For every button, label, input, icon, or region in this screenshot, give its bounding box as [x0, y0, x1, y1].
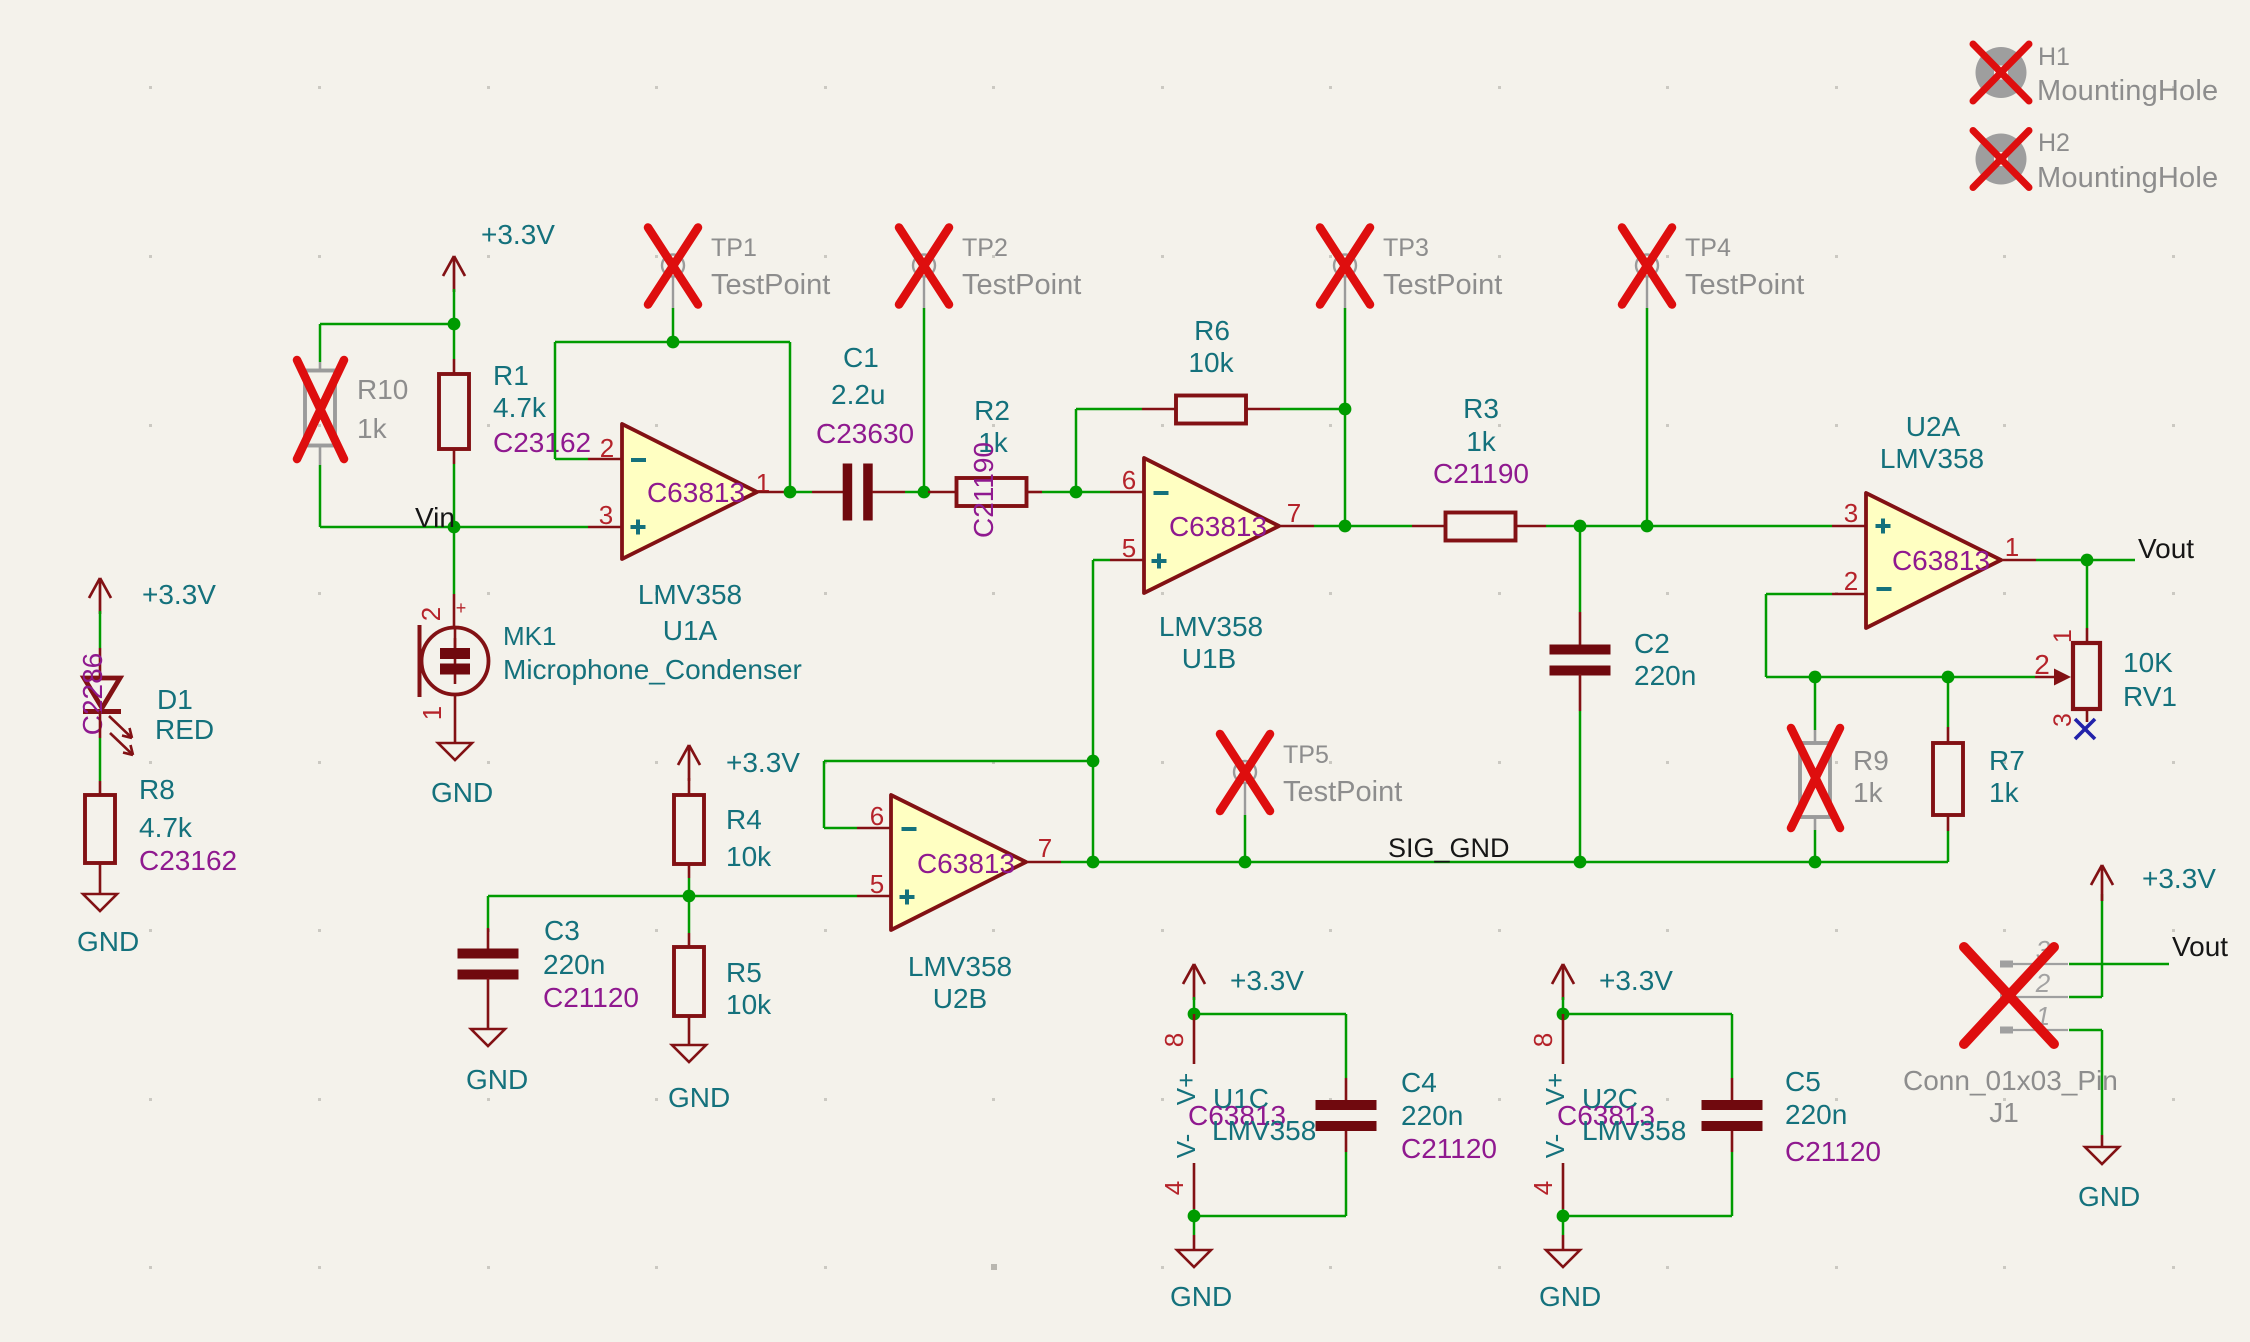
svg-text:C21120: C21120 [1401, 1133, 1497, 1164]
svg-text:4: 4 [1159, 1181, 1189, 1195]
svg-text:MK1: MK1 [503, 621, 556, 651]
svg-text:U1B: U1B [1182, 643, 1236, 674]
svg-text:Microphone_Condenser: Microphone_Condenser [503, 654, 802, 685]
svg-text:GND: GND [668, 1082, 730, 1113]
svg-text:2: 2 [2034, 649, 2050, 680]
svg-text:1: 1 [2005, 532, 2019, 562]
svg-text:R7: R7 [1989, 745, 2025, 776]
svg-text:TestPoint: TestPoint [1383, 269, 1502, 301]
svg-text:+: + [456, 598, 467, 618]
svg-text:R3: R3 [1463, 393, 1499, 424]
svg-text:MountingHole: MountingHole [2037, 75, 2218, 107]
svg-text:4.7k: 4.7k [139, 812, 193, 843]
svg-text:1: 1 [2049, 629, 2077, 643]
svg-text:H1: H1 [2038, 43, 2070, 71]
svg-text:RV1: RV1 [2123, 681, 2177, 712]
svg-text:220n: 220n [1634, 660, 1696, 691]
svg-text:TP1: TP1 [711, 234, 757, 262]
svg-text:R8: R8 [139, 774, 175, 805]
svg-text:TP5: TP5 [1283, 741, 1329, 769]
svg-text:TestPoint: TestPoint [962, 269, 1081, 301]
svg-text:1k: 1k [1989, 777, 2020, 808]
svg-text:GND: GND [1170, 1281, 1232, 1312]
svg-text:7: 7 [1287, 498, 1301, 528]
svg-text:+3.3V: +3.3V [726, 747, 800, 778]
svg-text:MountingHole: MountingHole [2037, 162, 2218, 194]
svg-text:U2A: U2A [1906, 411, 1961, 442]
svg-text:1k: 1k [1853, 777, 1884, 808]
svg-text:TP4: TP4 [1685, 234, 1731, 262]
svg-text:6: 6 [1122, 465, 1136, 495]
svg-text:D1: D1 [157, 684, 193, 715]
svg-text:GND: GND [2078, 1181, 2140, 1212]
svg-text:10k: 10k [726, 989, 772, 1020]
svg-text:4.7k: 4.7k [493, 392, 547, 423]
svg-text:H2: H2 [2038, 129, 2070, 157]
svg-text:3: 3 [599, 500, 613, 530]
svg-text:GND: GND [77, 926, 139, 957]
svg-text:SIG_GND: SIG_GND [1388, 833, 1510, 863]
svg-text:U2B: U2B [933, 983, 987, 1014]
svg-text:GND: GND [1539, 1281, 1601, 1312]
svg-text:Vout: Vout [2138, 533, 2194, 564]
svg-text:2: 2 [1844, 566, 1858, 596]
svg-text:2: 2 [2035, 968, 2051, 998]
svg-text:220n: 220n [1401, 1100, 1463, 1131]
svg-text:R2: R2 [974, 395, 1010, 426]
svg-text:V-: V- [1171, 1134, 1201, 1159]
svg-text:10k: 10k [1188, 347, 1234, 378]
svg-text:C21190: C21190 [968, 442, 999, 538]
svg-text:C2: C2 [1634, 628, 1670, 659]
svg-text:Vin: Vin [415, 502, 455, 533]
svg-text:R5: R5 [726, 957, 762, 988]
svg-text:220n: 220n [1785, 1099, 1847, 1130]
svg-text:C21120: C21120 [1785, 1136, 1881, 1167]
svg-text:C1: C1 [843, 342, 879, 373]
svg-text:LMV358: LMV358 [1212, 1115, 1316, 1146]
svg-text:+3.3V: +3.3V [1599, 965, 1673, 996]
svg-text:8: 8 [1528, 1033, 1558, 1047]
svg-text:1k: 1k [1466, 426, 1497, 457]
svg-text:C23162: C23162 [139, 845, 237, 876]
svg-text:2: 2 [416, 607, 446, 621]
svg-text:J1: J1 [1989, 1097, 2019, 1128]
svg-text:2.2u: 2.2u [831, 379, 886, 410]
svg-text:5: 5 [870, 869, 884, 899]
svg-text:C21190: C21190 [1433, 458, 1529, 489]
svg-text:LMV358: LMV358 [1159, 611, 1263, 642]
svg-text:C5: C5 [1785, 1066, 1821, 1097]
svg-text:GND: GND [431, 777, 493, 808]
svg-text:5: 5 [1122, 533, 1136, 563]
svg-text:R6: R6 [1194, 315, 1230, 346]
svg-text:C2286: C2286 [77, 653, 108, 736]
svg-text:Vout: Vout [2172, 931, 2228, 962]
svg-text:C63813: C63813 [1169, 511, 1267, 542]
svg-text:C3: C3 [544, 915, 580, 946]
svg-text:C23162: C23162 [493, 427, 591, 458]
svg-text:10k: 10k [726, 841, 772, 872]
svg-text:1: 1 [756, 468, 770, 498]
svg-text:+3.3V: +3.3V [481, 219, 555, 250]
svg-text:3: 3 [1844, 498, 1858, 528]
svg-text:8: 8 [1159, 1033, 1189, 1047]
svg-text:LMV358: LMV358 [638, 579, 742, 610]
svg-text:C23630: C23630 [816, 418, 914, 449]
svg-text:C63813: C63813 [917, 848, 1015, 879]
svg-text:TP2: TP2 [962, 234, 1008, 262]
svg-text:10K: 10K [2123, 647, 2173, 678]
svg-text:TestPoint: TestPoint [1685, 269, 1804, 301]
svg-text:6: 6 [870, 801, 884, 831]
svg-text:LMV358: LMV358 [1880, 443, 1984, 474]
svg-text:1k: 1k [357, 413, 388, 444]
svg-text:Conn_01x03_Pin: Conn_01x03_Pin [1903, 1065, 2118, 1096]
svg-text:TestPoint: TestPoint [711, 269, 830, 301]
svg-text:V-: V- [1540, 1134, 1570, 1159]
svg-text:C63813: C63813 [647, 477, 745, 508]
svg-text:GND: GND [466, 1064, 528, 1095]
svg-text:LMV358: LMV358 [1582, 1115, 1686, 1146]
svg-text:R9: R9 [1853, 745, 1889, 776]
svg-text:220n: 220n [543, 949, 605, 980]
svg-text:C4: C4 [1401, 1067, 1437, 1098]
svg-text:RED: RED [155, 714, 214, 745]
svg-text:4: 4 [1528, 1181, 1558, 1195]
svg-text:+3.3V: +3.3V [2142, 863, 2216, 894]
svg-text:C21120: C21120 [543, 982, 639, 1013]
svg-text:TestPoint: TestPoint [1283, 776, 1402, 808]
svg-text:C63813: C63813 [1892, 545, 1990, 576]
svg-text:U1A: U1A [663, 615, 718, 646]
svg-text:R4: R4 [726, 804, 762, 835]
svg-text:3: 3 [2049, 713, 2077, 727]
svg-text:TP3: TP3 [1383, 234, 1429, 262]
svg-text:+3.3V: +3.3V [1230, 965, 1304, 996]
svg-text:1: 1 [417, 706, 447, 720]
svg-text:R10: R10 [357, 374, 408, 405]
svg-text:+3.3V: +3.3V [142, 579, 216, 610]
svg-text:7: 7 [1038, 833, 1052, 863]
svg-text:LMV358: LMV358 [908, 951, 1012, 982]
svg-text:R1: R1 [493, 360, 529, 391]
